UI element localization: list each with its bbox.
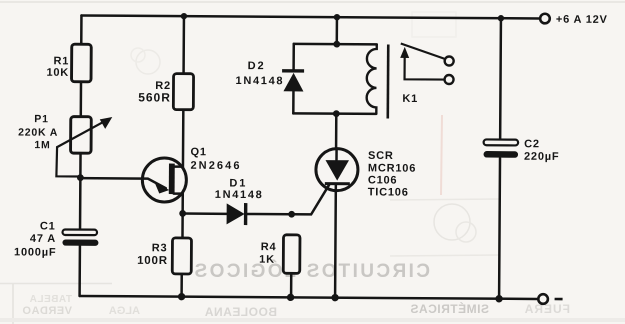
wire: C1 to bottom rail: [78, 245, 81, 296]
diode D1 cathode bar: [244, 203, 248, 225]
svg-text:BOOLEANA: BOOLEANA: [204, 305, 277, 319]
node: top rail / C2 branch: [498, 15, 504, 21]
wire: C2 to bottom rail: [498, 158, 501, 299]
node: top rail / R2 branch: [181, 13, 187, 19]
svg-text:FUERA: FUERA: [524, 302, 570, 316]
svg-text:MCR106: MCR106: [368, 162, 416, 174]
svg-text:SCR: SCR: [368, 150, 394, 162]
svg-text:100R: 100R: [137, 255, 168, 267]
relay K1 contact blade: [401, 43, 446, 58]
wire: relay loop top: [294, 43, 377, 46]
svg-text:VERDAO: VERDAO: [22, 305, 72, 317]
svg-text:C2: C2: [524, 138, 540, 150]
wire: R2 branch from top rail: [182, 16, 185, 73]
svg-text:1N4148: 1N4148: [235, 75, 284, 87]
node: bottom rail / SCR: [331, 294, 338, 301]
transistor Q1 emitter arrowhead: [155, 183, 170, 194]
relay K1 contact circle lower: [445, 75, 454, 84]
svg-text:P1: P1: [34, 113, 49, 125]
wire: R4 to bottom rail: [290, 273, 293, 297]
relay K1 contact circle upper: [445, 56, 454, 65]
svg-text:+6 A 12V: +6 A 12V: [556, 14, 608, 26]
wire: R3 to bottom rail: [180, 274, 183, 297]
resistor R2: [173, 74, 193, 110]
node: Q1 base1 / D1 / R3: [179, 210, 186, 217]
svg-text:R3: R3: [152, 242, 168, 254]
svg-text:ALGA: ALGA: [109, 305, 140, 317]
terminal: +V top right: [540, 14, 550, 24]
wire: relay node to SCR anode: [335, 114, 338, 149]
SCR triangle: [325, 160, 349, 181]
wire: R1 to P1: [80, 81, 83, 117]
resistor R1: [72, 44, 92, 82]
svg-text:Q1: Q1: [191, 146, 207, 158]
wire: left branch, rail to R1: [80, 15, 83, 44]
svg-text:1000µF: 1000µF: [14, 246, 56, 258]
relay K1 armature arrow: [400, 47, 444, 80]
wire: bottom rail: [80, 296, 538, 299]
svg-text:CIRCUITOS LÓGICOS: CIRCUITOS LÓGICOS: [192, 260, 430, 282]
diode D2 cathode bar: [282, 69, 304, 73]
wire: SCR gate: [292, 184, 330, 214]
svg-text:K1: K1: [402, 93, 418, 105]
node: relay loop top: [333, 41, 340, 48]
wire: SCR cathode to bottom rail: [334, 184, 337, 297]
relay K1 core bar: [386, 45, 389, 119]
capacitor C2 plate top (hollow): [484, 139, 519, 145]
wire: R2 to Q1 base2: [174, 110, 183, 167]
terminal: negative bottom right: [538, 294, 548, 304]
label minus: [555, 298, 563, 301]
wire: D2 branch top: [292, 44, 295, 70]
wire: D2 branch bottom: [292, 91, 295, 113]
wire: top supply rail: [81, 15, 539, 18]
svg-text:1N4148: 1N4148: [215, 189, 264, 201]
wire: P1 to wiper node: [79, 153, 82, 178]
capacitor C1 plate top (hollow): [62, 229, 97, 235]
wire: relay branch from top rail: [336, 17, 339, 44]
transistor Q1 base bar: [169, 164, 175, 195]
svg-text:R4: R4: [261, 241, 277, 253]
SCR body: [316, 149, 358, 191]
wire: relay loop bottom: [293, 112, 376, 115]
wire: D1 cathode to gate node: [247, 213, 292, 216]
relay K1 coil: [367, 44, 377, 114]
diode D1: [227, 203, 245, 224]
node: relay loop bottom: [333, 110, 340, 117]
svg-text:SIMÉTRICAS: SIMÉTRICAS: [410, 301, 489, 316]
wire: node to D1 anode: [183, 212, 227, 215]
svg-text:220K A: 220K A: [18, 127, 58, 139]
svg-text:TIC106: TIC106: [368, 186, 409, 198]
svg-text:C1: C1: [40, 220, 56, 232]
svg-text:C106: C106: [368, 174, 398, 186]
node: bottom rail / R3: [178, 293, 185, 300]
svg-text:47 A: 47 A: [30, 233, 56, 245]
wire: Q1 base1 to D1/R3 node: [173, 194, 182, 238]
wire: C2 branch from top rail: [499, 18, 502, 139]
svg-text:R1: R1: [53, 55, 69, 67]
resistor R4: [283, 235, 300, 274]
capacitor C1 plate bottom (solid): [62, 239, 98, 245]
svg-text:1M: 1M: [34, 139, 50, 151]
node: wiper / C1 / emitter junction: [77, 174, 84, 181]
svg-text:D2: D2: [248, 60, 266, 72]
node: D1 / R4 / gate: [288, 211, 295, 218]
svg-text:1K: 1K: [259, 254, 275, 266]
svg-text:10K: 10K: [46, 67, 69, 79]
potentiometer P1 wiper arrow: [56, 117, 112, 177]
wire: emitter of Q1: [80, 178, 166, 188]
potentiometer P1 body: [71, 117, 92, 154]
wire: inside SCR anode to triangle: [335, 149, 338, 160]
svg-text:D1: D1: [229, 177, 247, 189]
transistor Q1 (UJT 2N2646) body: [142, 158, 186, 202]
diode D2: [283, 73, 303, 92]
wire: wiper node to C1: [79, 178, 82, 230]
node: top rail / relay branch: [334, 14, 340, 20]
svg-text:TABELA: TABELA: [29, 294, 72, 305]
SCR cathode bar: [325, 182, 350, 185]
capacitor C2 plate bottom (solid): [484, 151, 519, 158]
svg-text:220µF: 220µF: [524, 151, 560, 163]
svg-text:2N2646: 2N2646: [190, 160, 241, 172]
svg-text:560R: 560R: [138, 90, 171, 104]
node: bottom rail / C2: [495, 295, 502, 302]
resistor R3: [172, 238, 191, 274]
node: bottom rail / R4: [287, 294, 294, 301]
